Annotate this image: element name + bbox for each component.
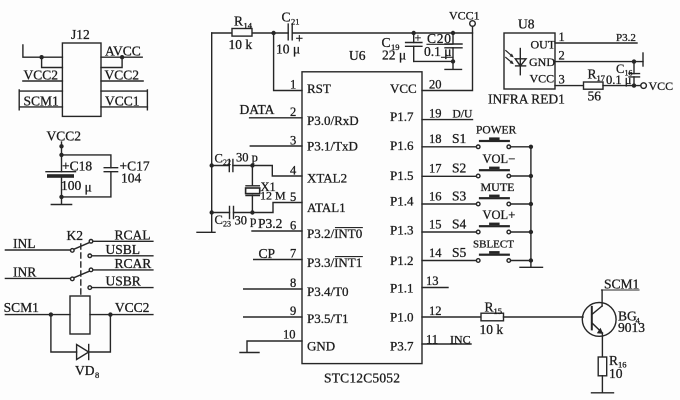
svg-text:P1.1: P1.1	[390, 281, 413, 296]
button S3 MUTE row: pin16 wire	[422, 203, 476, 205]
node dot branch junction	[59, 153, 63, 157]
wire VCC2 vertical	[61, 142, 63, 172]
svg-text:5: 5	[290, 190, 296, 204]
contact USBL	[88, 254, 92, 258]
svg-text:P1.7: P1.7	[390, 109, 414, 124]
svg-text:SCM1: SCM1	[604, 277, 639, 292]
svg-text:USBL: USBL	[106, 242, 141, 257]
svg-text:17: 17	[429, 161, 442, 175]
wire SCM1 row left	[19, 106, 62, 108]
svg-text:20: 20	[429, 78, 442, 92]
wire U8 pin2 GND	[555, 61, 643, 63]
svg-text:16: 16	[429, 189, 442, 203]
wire pin10 GND	[247, 341, 302, 352]
svg-text:7: 7	[290, 247, 296, 261]
svg-text:R: R	[588, 67, 597, 82]
node dot C22 left	[210, 163, 214, 167]
svg-text:K2: K2	[67, 228, 84, 243]
svg-text:P3.4/T0: P3.4/T0	[307, 284, 349, 299]
ground transistor	[592, 392, 614, 394]
svg-text:VCC1: VCC1	[105, 94, 140, 109]
svg-text:P3.0/RxD: P3.0/RxD	[307, 113, 359, 128]
wire button bus vertical	[530, 147, 532, 267]
wire diode bypass right	[89, 315, 111, 352]
svg-text:VCC1: VCC1	[449, 9, 480, 23]
svg-text:R: R	[234, 14, 243, 29]
svg-text:10 μ: 10 μ	[276, 42, 300, 57]
svg-text:C: C	[215, 213, 223, 227]
svg-text:8: 8	[95, 370, 99, 380]
transistor BG4	[582, 303, 616, 337]
svg-text:13: 13	[426, 274, 439, 288]
svg-text:21: 21	[291, 17, 300, 27]
IC U8 infrared receiver body	[504, 33, 555, 89]
svg-text:P3.7: P3.7	[390, 339, 414, 354]
ground below C20	[445, 61, 462, 69]
svg-text:8: 8	[290, 276, 296, 290]
pushbutton S3	[476, 195, 510, 206]
diode VD8	[77, 345, 89, 360]
wire pin8 stub	[244, 288, 302, 290]
svg-text:15: 15	[494, 306, 503, 316]
wire S1 to bus	[511, 146, 531, 148]
node dot SCM1 junction	[49, 312, 53, 316]
wire USBL	[92, 255, 153, 257]
svg-text:100: 100	[61, 178, 82, 193]
wire pin4 XTAL2 link	[252, 166, 302, 177]
svg-text:P3.2/INT0: P3.2/INT0	[307, 226, 362, 241]
crystal X1	[246, 186, 260, 196]
svg-text:10: 10	[609, 366, 623, 381]
node dot RST junction	[271, 31, 275, 35]
svg-text:P3.5/T1: P3.5/T1	[307, 311, 349, 326]
wire S3 to bus	[511, 203, 531, 205]
svg-text:23: 23	[223, 220, 231, 229]
wire VCC1 to pin20	[422, 26, 473, 90]
node dot GND junction	[632, 59, 636, 63]
resistor R14	[232, 29, 252, 37]
svg-text:OUT: OUT	[531, 38, 556, 52]
svg-text:4: 4	[290, 164, 297, 178]
svg-text:INC: INC	[450, 333, 471, 347]
wire C23 row	[212, 212, 253, 214]
wire R15 to base	[504, 316, 584, 318]
wire INR	[5, 277, 70, 279]
wire C18 bottom	[61, 178, 63, 204]
node dot C23 right	[250, 210, 254, 214]
svg-text:22: 22	[223, 158, 231, 167]
wire S2 to bus	[511, 175, 531, 177]
svg-text:GND: GND	[529, 55, 555, 69]
wire row4 right	[101, 90, 147, 110]
svg-text:12 M: 12 M	[260, 189, 286, 203]
wire coil to VCC2	[90, 314, 153, 316]
node dot VCC2 terminal	[59, 144, 63, 148]
svg-text:P1.5: P1.5	[390, 168, 413, 183]
pushbutton S2	[476, 167, 510, 178]
wire pin9 stub	[244, 316, 302, 318]
svg-text:S4: S4	[452, 216, 467, 231]
svg-text:S1: S1	[452, 131, 466, 146]
wire C19 bottom link	[414, 60, 453, 62]
button S4 VOL+ row: pin15 wire	[422, 231, 476, 233]
wire INL	[5, 249, 70, 251]
svg-text:S3: S3	[452, 188, 467, 203]
svg-text:2: 2	[290, 105, 296, 119]
node junction row1 left	[39, 55, 43, 59]
svg-text:P3.1/TxD: P3.1/TxD	[307, 139, 358, 154]
photodiode inside U8	[506, 49, 526, 75]
node dot VCC junction	[632, 83, 636, 87]
wire pin12 to R15	[422, 316, 481, 318]
node dot C19 junction	[412, 31, 416, 35]
svg-text:VCC2: VCC2	[47, 129, 82, 144]
svg-text:1: 1	[290, 78, 296, 92]
svg-text:S2: S2	[452, 160, 466, 175]
svg-text:15: 15	[429, 217, 442, 231]
svg-text:P1.4: P1.4	[390, 194, 414, 209]
wire top rail	[212, 32, 473, 34]
svg-text:2: 2	[559, 49, 565, 63]
contact RCAR	[89, 268, 93, 272]
svg-text:10: 10	[283, 328, 296, 342]
svg-text:14: 14	[429, 246, 442, 260]
node dot bus S5	[529, 258, 533, 262]
wire L-link row2 left	[42, 57, 63, 67]
svg-text:RCAR: RCAR	[115, 256, 152, 271]
svg-text:VOL+: VOL+	[483, 208, 516, 222]
svg-text:U8: U8	[518, 17, 535, 32]
contact RCAL	[89, 240, 93, 244]
svg-text:INL: INL	[13, 236, 36, 251]
svg-text:MUTE: MUTE	[481, 180, 515, 194]
wire VCC2 row right	[101, 80, 143, 82]
svg-text:POWER: POWER	[476, 125, 517, 137]
ground pin10	[240, 352, 259, 354]
wire AVCC row1 right	[101, 56, 142, 58]
wire row4 left	[19, 90, 62, 110]
node dot bus S2	[529, 174, 533, 178]
svg-text:22 μ: 22 μ	[382, 48, 406, 63]
ground button bus	[520, 266, 543, 268]
wire RCAL	[93, 240, 153, 242]
resistor R17	[584, 82, 604, 89]
switch K2 pole INL	[71, 249, 75, 253]
svg-text:3: 3	[559, 73, 565, 87]
wire left pulldown vertical	[211, 33, 213, 213]
svg-text:P3.2: P3.2	[258, 216, 282, 231]
svg-text:P1.0: P1.0	[390, 310, 413, 325]
wire pin6 stub	[252, 230, 302, 232]
svg-text:J12: J12	[71, 27, 90, 42]
svg-text:RST: RST	[307, 81, 331, 96]
wire pin19 D/U stub	[422, 119, 473, 121]
svg-text:USBR: USBR	[106, 274, 141, 289]
svg-text:INFRA RED1: INFRA RED1	[488, 92, 565, 107]
wire branch to C17 top	[62, 155, 111, 168]
wire pin5 ATAL1 link	[252, 203, 302, 213]
svg-text:12: 12	[429, 304, 442, 318]
svg-text:AVCC: AVCC	[105, 44, 141, 59]
wire SCM1 to coil	[5, 314, 70, 316]
svg-text:+C18: +C18	[62, 158, 92, 173]
svg-text:D/U: D/U	[453, 109, 474, 121]
wire RCAR	[93, 269, 153, 271]
svg-text:S5: S5	[452, 245, 467, 260]
capacitor C17	[104, 168, 117, 172]
node dot bus S4	[529, 230, 533, 234]
capacitor C19	[406, 33, 422, 61]
switch arm INR-RCAR	[74, 271, 89, 278]
wire pin11 INC stub	[422, 343, 471, 345]
svg-text:30 p: 30 p	[236, 151, 258, 165]
svg-text:C: C	[215, 152, 223, 166]
svg-text:XTAL2: XTAL2	[307, 171, 347, 186]
svg-text:SCM1: SCM1	[24, 94, 59, 109]
svg-text:+: +	[415, 31, 422, 45]
power VCC1 terminal	[470, 21, 476, 27]
wire K2 actuator dashed link	[80, 244, 82, 295]
contact USBR	[88, 286, 92, 290]
svg-text:P3.2: P3.2	[616, 32, 636, 44]
button S1 POWER row: pin18 wire	[422, 146, 476, 148]
node dot bus S1	[529, 145, 533, 149]
svg-text:DATA: DATA	[240, 102, 275, 117]
node dot VCC2 junction	[108, 312, 112, 316]
wire collector to SCM1	[601, 290, 603, 306]
ground sideways U8	[642, 53, 644, 66]
ground below C18	[51, 204, 71, 206]
svg-text:14: 14	[244, 21, 253, 31]
IC U6 body	[302, 72, 422, 364]
connector J12	[62, 43, 101, 116]
svg-text:C: C	[282, 10, 291, 25]
svg-text:GND: GND	[307, 339, 335, 354]
svg-text:3: 3	[290, 133, 296, 147]
svg-text:VCC2: VCC2	[24, 68, 59, 83]
node dot C20 junction top	[451, 31, 455, 35]
svg-text:U6: U6	[349, 48, 366, 63]
svg-text:6: 6	[290, 219, 296, 233]
svg-text:P3.3/INT1: P3.3/INT1	[307, 255, 362, 270]
resistor R15	[481, 313, 504, 321]
node dot bus S3	[529, 202, 533, 206]
switch arm INL-RCAL	[74, 243, 89, 250]
wire S4 to bus	[511, 231, 531, 233]
node dot C23 left	[210, 210, 214, 214]
svg-text:CP: CP	[259, 246, 276, 261]
svg-text:VCC: VCC	[649, 79, 674, 93]
capacitor C20	[445, 33, 462, 61]
svg-text:R: R	[485, 300, 494, 315]
wire J12 pin row1 left	[23, 45, 63, 57]
node junction row1 right	[120, 55, 124, 59]
wire VCC1 row right	[101, 106, 147, 108]
svg-text:30 p: 30 p	[235, 214, 257, 228]
svg-text:56: 56	[588, 89, 602, 104]
relay coil K2	[70, 296, 90, 334]
ground left column	[197, 213, 215, 233]
svg-text:INR: INR	[13, 264, 36, 279]
pin 13 number and stub	[422, 287, 448, 289]
wire S5 to bus	[511, 260, 531, 262]
wire L-link row2 right	[101, 57, 122, 67]
svg-text:10 k: 10 k	[480, 322, 504, 337]
wire R16 to ground	[601, 376, 603, 393]
svg-text:9: 9	[290, 304, 296, 318]
button S5 SBLECT row: pin14 wire	[422, 260, 476, 262]
svg-text:9013: 9013	[618, 320, 645, 335]
pushbutton S4	[476, 223, 510, 234]
button S2 VOL&#8722; row: pin17 wire	[422, 175, 476, 177]
wire CP pin7	[254, 259, 302, 261]
wire U8 pin1 to P3.2	[555, 42, 637, 44]
node dot C20 bottom junction	[451, 59, 455, 63]
svg-text:1: 1	[559, 30, 565, 44]
capacitor C18	[46, 172, 76, 178]
resistor R16	[598, 357, 607, 376]
wire RST vertical	[274, 33, 302, 91]
wire C22 row	[212, 165, 253, 167]
wire emitter to R16	[601, 333, 603, 357]
wire U8 pin3 to R17	[555, 85, 584, 87]
svg-text:μ: μ	[85, 180, 92, 195]
svg-text:VCC: VCC	[530, 71, 555, 85]
svg-text:VOL−: VOL−	[483, 152, 516, 166]
pushbutton S1	[476, 137, 510, 148]
svg-text:VCC2: VCC2	[105, 68, 140, 83]
svg-text:104: 104	[121, 171, 142, 186]
wire bottom branch from C17	[62, 172, 111, 197]
svg-text:P1.3: P1.3	[390, 223, 413, 238]
wire USBR	[92, 287, 153, 289]
capacitor C22	[229, 160, 233, 172]
node dot bottom junction	[59, 195, 63, 199]
svg-text:P1.2: P1.2	[390, 253, 413, 268]
capacitor C21	[288, 24, 292, 40]
svg-text:VD: VD	[75, 363, 95, 378]
svg-text:RCAL: RCAL	[115, 227, 151, 242]
wire R17 to VCC	[603, 85, 641, 87]
node dot C22 right	[250, 163, 254, 167]
wire VCC2 row left	[23, 80, 63, 82]
wire pin3 stub	[250, 145, 302, 147]
svg-text:18: 18	[429, 132, 442, 146]
svg-text:SCM1: SCM1	[4, 300, 39, 315]
svg-text:VCC2: VCC2	[115, 300, 150, 315]
svg-text:VCC: VCC	[390, 81, 417, 96]
wire diode bypass left	[51, 315, 77, 352]
capacitor C23	[230, 207, 234, 219]
svg-text:ATAL1: ATAL1	[307, 200, 346, 215]
power VCC terminal	[641, 83, 647, 89]
wire crystal vertical	[251, 166, 253, 213]
wire DATA pin2	[250, 117, 302, 119]
svg-text:STC12C5052: STC12C5052	[324, 371, 400, 386]
pushbutton S5	[476, 251, 510, 262]
svg-text:19: 19	[429, 107, 442, 121]
svg-text:11: 11	[426, 333, 438, 347]
svg-text:10 k: 10 k	[229, 37, 253, 52]
svg-text:P1.6: P1.6	[390, 138, 414, 153]
switch K2 pole INR	[71, 277, 75, 281]
svg-text:SBLECT: SBLECT	[473, 238, 514, 250]
svg-text:17: 17	[597, 73, 606, 83]
capacitor C16	[629, 62, 640, 86]
